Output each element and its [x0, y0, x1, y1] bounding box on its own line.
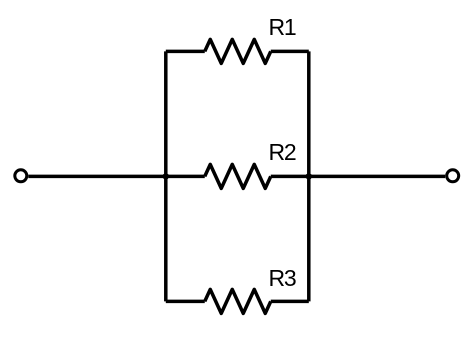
wire R2 right [271, 175, 309, 179]
wire R1 right [271, 50, 309, 54]
svg-text:R1: R1 [269, 14, 296, 40]
resistor R3 [205, 289, 271, 313]
wire R2 left [166, 175, 205, 179]
resistor R2 [205, 164, 271, 188]
resistor R1 [205, 39, 271, 63]
wire R3 right [271, 300, 309, 304]
node junction left [163, 173, 169, 179]
wire left lead [28, 175, 166, 179]
right terminal [447, 170, 459, 182]
wire R3 left [166, 300, 205, 304]
wire right lead [309, 175, 445, 179]
wire left bus [164, 51, 168, 301]
svg-text:R3: R3 [269, 265, 296, 291]
wire right bus [307, 51, 311, 301]
left terminal [15, 170, 27, 182]
wire R1 left [166, 50, 205, 54]
node junction right [306, 173, 312, 179]
svg-text:R2: R2 [269, 139, 296, 165]
